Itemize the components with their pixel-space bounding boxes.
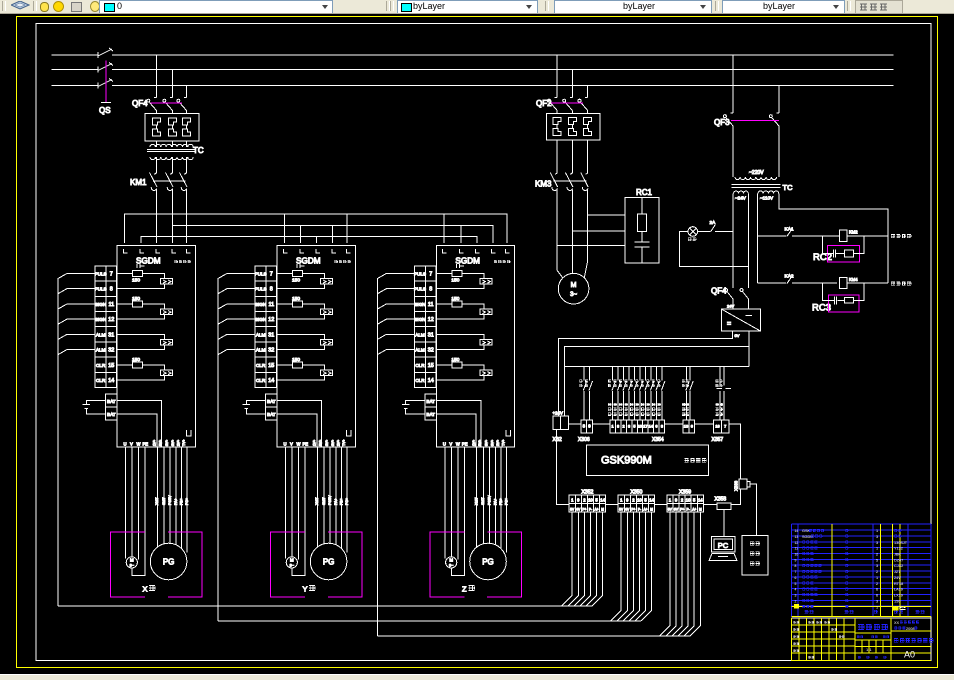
label cooling control (891, 234, 895, 237)
svg-text:QS: QS (99, 106, 111, 115)
cable X336 to handwheel (750, 484, 757, 535)
svg-text:PC: PC (718, 541, 729, 550)
parts list (BOM) table (792, 524, 931, 616)
KM3 linkage bar (554, 180, 587, 182)
wires QF2 to contactor KM3 (556, 140, 558, 171)
svg-text:5: 5 (876, 558, 878, 562)
svg-text:X336: X336 (734, 480, 739, 491)
svg-text:6: 6 (795, 576, 797, 580)
svg-text:X357: X357 (712, 437, 724, 443)
svg-text:1: 1 (876, 576, 878, 580)
svg-text:14: 14 (649, 498, 654, 503)
svg-text:3: 3 (628, 425, 630, 429)
svg-text:14: 14 (600, 498, 605, 503)
svg-text:7: 7 (724, 425, 726, 429)
cable X358 to PC (723, 509, 725, 536)
QF2 interlock (magenta) (551, 102, 583, 104)
svg-text:14: 14 (649, 425, 653, 429)
servo drive unit Z axis (377, 246, 521, 597)
svg-text:GSK990M: GSK990M (601, 455, 652, 467)
svg-text:~24V: ~24V (735, 196, 747, 201)
AC/DC power supply (rectifier) (722, 309, 761, 331)
+24V input common rail (565, 366, 749, 368)
title: drawing name (894, 639, 898, 643)
distribution rail R2 (phase 2) (173, 226, 493, 244)
QS interlock bar (magenta) (105, 61, 107, 103)
signal cable X axis (57, 279, 59, 606)
BOM highlight cell (892, 606, 898, 610)
svg-text:2008: 2008 (906, 627, 914, 631)
svg-text:8: 8 (795, 564, 797, 568)
svg-text:2: 2 (622, 425, 624, 429)
svg-text:8: 8 (617, 425, 619, 429)
svg-text:Y: Y (303, 585, 308, 594)
svg-text:5: 5 (795, 582, 797, 586)
svg-text:P-: P- (589, 508, 592, 512)
distribution rail R1 (phase 1) (125, 214, 508, 243)
TC2 secondary ~24V (734, 191, 749, 193)
svg-text:A0: A0 (904, 650, 915, 660)
svg-text:Z: Z (462, 585, 467, 594)
svg-text:KM4: KM4 (849, 277, 858, 282)
BOM yellow grid lines (792, 524, 931, 616)
svg-text:1:1: 1:1 (866, 647, 872, 652)
svg-text:17: 17 (643, 425, 647, 429)
svg-text:4: 4 (795, 588, 797, 592)
svg-text:M: M (650, 508, 653, 512)
svg-text:X358: X358 (715, 497, 727, 503)
svg-text:1: 1 (876, 547, 878, 551)
connector X32 (553, 416, 569, 430)
svg-text:1: 1 (876, 605, 878, 609)
svg-text:XX: XX (894, 621, 900, 625)
svg-text:CJX2: CJX2 (894, 564, 903, 568)
svg-text:X354: X354 (652, 437, 664, 443)
spindle motor M 3~ (558, 273, 589, 304)
lamp return wire (680, 232, 749, 267)
handwheel pendant unit (742, 536, 768, 576)
svg-text:DZ47: DZ47 (894, 558, 903, 562)
svg-text:13: 13 (684, 425, 688, 429)
BOM header row (804, 610, 808, 613)
capacitor dashes X357 (717, 387, 732, 389)
servo drive unit Y axis (218, 246, 362, 597)
+24V supply line to CNC (559, 331, 733, 416)
svg-text:150: 150 (894, 599, 900, 603)
svg-text:6: 6 (691, 425, 693, 429)
input wires connector X354 (limit/deceleration switches) (608, 367, 616, 421)
svg-text:3: 3 (876, 535, 878, 539)
control transformer TC (primary) (150, 144, 193, 147)
svg-text:10: 10 (686, 498, 691, 503)
svg-text:RT18: RT18 (894, 582, 903, 586)
svg-text:10: 10 (588, 498, 593, 503)
svg-text:GSK: GSK (802, 529, 810, 533)
svg-text:2: 2 (876, 553, 878, 557)
signal cable Y axis (217, 279, 219, 621)
distribution rail R3 (phase 3) (141, 237, 477, 244)
svg-text:2: 2 (795, 599, 797, 603)
wires from bus to breaker QF4 (156, 55, 158, 91)
title: graduation design (858, 625, 864, 630)
svg-text:3~: 3~ (570, 292, 577, 298)
svg-text:P+: P+ (631, 508, 635, 512)
TC secondary (150, 157, 193, 160)
svg-text:12: 12 (795, 541, 799, 545)
svg-text:KM1: KM1 (130, 178, 147, 187)
svg-text:0V: 0V (735, 333, 740, 338)
svg-text:3: 3 (876, 599, 878, 603)
PC (programming computer) (712, 537, 736, 553)
svg-text:M: M (571, 282, 577, 289)
svg-text:A+: A+ (644, 508, 648, 512)
svg-text:14: 14 (795, 529, 799, 533)
signal cable Z axis (376, 279, 378, 637)
wire: 3-phase bus L2 (52, 69, 99, 71)
svg-text:TC: TC (193, 146, 204, 155)
svg-text:2A: 2A (710, 220, 717, 226)
svg-text:M: M (601, 508, 604, 512)
title block grid (yellow) (792, 618, 931, 661)
svg-text:Y132: Y132 (894, 547, 903, 551)
svg-text:11: 11 (795, 547, 799, 551)
svg-text:P+: P+ (582, 508, 586, 512)
svg-text:6: 6 (655, 425, 657, 429)
CNC controller GSK990M outline (557, 424, 741, 505)
wires TC to contactor KM1 (156, 141, 158, 147)
0V supply line to CNC (565, 331, 749, 416)
svg-text:1: 1 (876, 529, 878, 533)
svg-text:X: X (143, 585, 148, 594)
svg-text:QF4: QF4 (132, 99, 148, 108)
TC2 secondary ~110V (758, 191, 779, 194)
svg-text:24V: 24V (727, 304, 734, 309)
disconnect switch QS (97, 52, 99, 58)
TC2 core (732, 184, 781, 186)
wires bus to breaker QF3 (732, 55, 734, 113)
svg-text:KM2: KM2 (849, 230, 858, 235)
svg-text:JBK: JBK (894, 553, 901, 557)
contactor coil KM4 (lubrication) (839, 277, 847, 288)
QF3 interlock (magenta) (731, 119, 779, 121)
wires phases to RC1 (588, 214, 625, 216)
svg-text:P+: P+ (680, 508, 684, 512)
svg-text:~220V: ~220V (749, 170, 764, 176)
bottom cable bus 2 (X350) (218, 620, 641, 622)
svg-text:P-: P- (687, 508, 690, 512)
QF2 trip-unit box (546, 114, 600, 140)
svg-text:1: 1 (611, 425, 613, 429)
bottom cable bus 1 (X352) (58, 605, 592, 607)
svg-text:QF2: QF2 (536, 99, 552, 108)
input wires connector X306 (579, 367, 587, 421)
svg-text:X32: X32 (553, 437, 562, 443)
svg-text:10: 10 (638, 425, 642, 429)
KM1 linkage bar (153, 180, 186, 182)
svg-text:3: 3 (661, 425, 663, 429)
svg-text:X306: X306 (578, 437, 590, 443)
svg-text:JZ7: JZ7 (894, 570, 900, 574)
CNC inner block GSK990M (586, 445, 708, 475)
servo drive unit X axis (58, 246, 202, 597)
svg-text:LA19: LA19 (894, 588, 903, 592)
input wires connector X357 (719, 367, 721, 421)
svg-text:130SJT: 130SJT (894, 541, 908, 545)
bottom cable bus 3 (X359) (377, 635, 690, 637)
QF4 trip-unit box (145, 114, 199, 142)
wire: 3-phase bus L3 (52, 85, 99, 87)
svg-text:13: 13 (795, 535, 799, 539)
wire: 3-phase bus L1 (52, 54, 99, 56)
svg-text:KA2: KA2 (785, 274, 794, 280)
svg-text:7: 7 (795, 570, 797, 574)
svg-text:A+: A+ (595, 508, 599, 512)
svg-text:6: 6 (876, 588, 878, 592)
svg-text:LX19: LX19 (894, 594, 903, 598)
QF4 interlock (magenta) (151, 102, 183, 104)
svg-text:6: 6 (876, 594, 878, 598)
svg-text:2: 2 (876, 570, 878, 574)
BOM highlight cell 2 (794, 604, 799, 608)
svg-text:~110V: ~110V (760, 196, 774, 201)
title block separator (white) (792, 617, 931, 619)
label lubrication control (891, 282, 895, 285)
svg-text:10: 10 (637, 498, 642, 503)
svg-text:M: M (699, 508, 702, 512)
svg-text:KA1: KA1 (785, 227, 794, 233)
svg-text:=: = (727, 321, 731, 328)
wires bus to breaker QF2 (556, 55, 558, 91)
transformer TC2 primary ~220V (732, 126, 734, 177)
svg-text:5: 5 (633, 425, 635, 429)
svg-text:P-: P- (638, 508, 641, 512)
svg-text:RC1: RC1 (636, 188, 653, 197)
svg-text:2: 2 (876, 582, 878, 586)
contactor coil KM2 (cooling) (839, 230, 847, 241)
svg-text:14: 14 (698, 498, 703, 503)
svg-text:10: 10 (795, 553, 799, 557)
title block cell texts (793, 621, 795, 623)
svg-text:3: 3 (795, 594, 797, 598)
svg-text:24V: 24V (894, 576, 901, 580)
svg-text:TC: TC (783, 183, 794, 192)
wires KM3 to spindle motor (557, 190, 588, 279)
TC core (147, 149, 196, 151)
svg-text:3: 3 (876, 541, 878, 545)
input wires connector X355 (682, 367, 690, 421)
svg-text:3: 3 (876, 564, 878, 568)
svg-text:16: 16 (715, 425, 719, 429)
svg-text:A+: A+ (692, 508, 696, 512)
svg-text:9: 9 (795, 558, 797, 562)
svg-text:KM3: KM3 (535, 180, 552, 189)
svg-text:+24V: +24V (553, 411, 563, 416)
lamp EL (work light) (688, 227, 698, 237)
